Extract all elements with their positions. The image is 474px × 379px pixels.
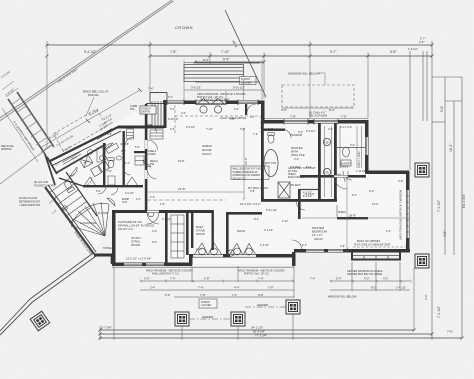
svg-text:4'-4": 4'-4" bbox=[234, 286, 240, 290]
svg-text:2'-8": 2'-8" bbox=[181, 112, 186, 115]
svg-text:2'-8": 2'-8" bbox=[230, 118, 235, 121]
svg-text:1'-6 1/2": 1'-6 1/2" bbox=[408, 47, 418, 51]
svg-text:8'-2": 8'-2" bbox=[329, 108, 335, 112]
playroom notes bbox=[118, 220, 154, 231]
svg-text:WINDOW: WINDOW bbox=[1, 148, 12, 151]
right rotated dim texts bbox=[424, 105, 466, 318]
bedroom interior dim lines bbox=[302, 177, 409, 252]
svg-text:WOOD: WOOD bbox=[131, 243, 140, 247]
hearth labels bbox=[196, 225, 205, 236]
porch column 3 bbox=[286, 300, 300, 314]
svg-text:77'-2 3/4": 77'-2 3/4" bbox=[255, 334, 267, 338]
window seat dashed bbox=[353, 246, 409, 248]
door arcs great room west wall bbox=[148, 140, 158, 179]
svg-text:14'-0": 14'-0" bbox=[196, 248, 202, 251]
svg-text:WINDOW SILL BELOW: WINDOW SILL BELOW bbox=[328, 295, 357, 299]
window gaps playroom bottom bbox=[124, 263, 142, 265]
svg-text:SHELF + ROD: SHELF + ROD bbox=[358, 151, 361, 168]
svg-text:3'-8 1/2": 3'-8 1/2" bbox=[191, 85, 201, 89]
top-left angled dim marks bbox=[2, 81, 18, 97]
playroom right wall bbox=[165, 212, 168, 264]
svg-text:3'-4": 3'-4" bbox=[168, 96, 173, 99]
svg-text:POCKET DOORS: POCKET DOORS bbox=[34, 183, 55, 187]
svg-text:4'-2": 4'-2" bbox=[364, 277, 370, 281]
svg-text:(2) 1-3/4"x11-7/8" LVL HDR: (2) 1-3/4"x11-7/8" LVL HDR bbox=[200, 98, 229, 101]
svg-text:C-4 1/2 x 8-8 LIN: C-4 1/2 x 8-8 LIN bbox=[56, 135, 74, 147]
dashed brick sill box bbox=[53, 109, 106, 151]
wing corridor upper wall angled bbox=[50, 127, 119, 162]
top-right wall bbox=[262, 120, 368, 124]
svg-text:HEADER: HEADER bbox=[202, 315, 213, 319]
svg-text:7'-1 1/2": 7'-1 1/2" bbox=[437, 305, 441, 318]
svg-text:28'-8": 28'-8" bbox=[349, 214, 356, 218]
svg-text:CROWN: CROWN bbox=[175, 25, 193, 30]
svg-text:FLAT CASE 16" WINDOW SEAT: FLAT CASE 16" WINDOW SEAT bbox=[354, 244, 391, 247]
svg-text:WD SEAT: WD SEAT bbox=[290, 184, 301, 187]
bottom total dim lines bbox=[100, 330, 462, 338]
porch louver steps bbox=[184, 65, 244, 83]
svg-text:CHUTE: CHUTE bbox=[340, 165, 349, 168]
property line double gray diagonal bbox=[0, 0, 174, 121]
svg-text:9'-4 1/2": 9'-4 1/2" bbox=[84, 50, 97, 54]
floor fill wing bbox=[45, 106, 146, 254]
playroom left exterior wall bbox=[112, 210, 116, 266]
svg-text:5'-8": 5'-8" bbox=[121, 149, 126, 153]
svg-text:7'-8": 7'-8" bbox=[268, 286, 274, 290]
wall step right bbox=[366, 171, 409, 175]
windows top-right wall bbox=[284, 121, 308, 123]
top main dimension line bbox=[46, 44, 434, 47]
interior vertical wall below entry bbox=[145, 104, 148, 211]
svg-text:AVAIL LENGTH 6'-2" O.C.: AVAIL LENGTH 6'-2" O.C. bbox=[152, 273, 180, 276]
G circle 1 bbox=[323, 138, 330, 145]
wing interior horizontal wall bbox=[83, 185, 143, 187]
svg-text:LINE OF EXIST WALL: LINE OF EXIST WALL bbox=[57, 68, 79, 84]
entry porch steps bbox=[152, 101, 161, 127]
svg-text:CLOAKROOM: CLOAKROOM bbox=[80, 222, 96, 225]
wing toilet 2 bbox=[108, 158, 114, 168]
bedroom door arc bbox=[334, 177, 347, 189]
bottom wall center portion bbox=[190, 254, 294, 258]
wing corridor upper wall horizontal part bbox=[118, 126, 164, 129]
dims under dashed box bbox=[281, 108, 347, 119]
angled dim line above corridor bbox=[40, 90, 140, 148]
svg-text:7'-8": 7'-8" bbox=[170, 50, 177, 54]
extra extension lines top porch bbox=[184, 60, 262, 100]
top dimension line 3 bbox=[194, 61, 266, 64]
dim line under dashed box bbox=[262, 108, 368, 119]
svg-text:5'-2": 5'-2" bbox=[52, 209, 58, 214]
svg-text:6X6: 6X6 bbox=[130, 108, 135, 111]
svg-text:9'-8": 9'-8" bbox=[440, 105, 444, 112]
svg-text:LINEN: LINEN bbox=[148, 152, 156, 156]
svg-text:TRANSOM: TRANSOM bbox=[290, 134, 302, 137]
right side extension lines bbox=[410, 41, 462, 340]
svg-text:7'-8": 7'-8" bbox=[290, 115, 296, 119]
leader to dashed box bbox=[318, 73, 325, 85]
wing corridor upper wall inner face bbox=[52, 131, 121, 166]
winder stair fan treads bbox=[71, 202, 109, 236]
svg-text:9'-5": 9'-5" bbox=[223, 58, 230, 62]
windows bottom-right wall bbox=[306, 250, 324, 252]
svg-text:3'-0": 3'-0" bbox=[144, 277, 150, 281]
svg-text:1'-4 1/2": 1'-4 1/2" bbox=[4, 87, 15, 96]
wing toilet 1 bbox=[63, 180, 75, 193]
svg-text:NOOK: NOOK bbox=[237, 229, 245, 233]
bottom extension lines bbox=[100, 262, 414, 340]
mid dim lines bbox=[140, 281, 410, 297]
svg-text:2'-8": 2'-8" bbox=[340, 245, 345, 248]
entry porch side walls upper bbox=[150, 93, 167, 105]
svg-text:VAULT: VAULT bbox=[202, 152, 211, 156]
svg-text:6'-2 1/2": 6'-2 1/2" bbox=[162, 218, 171, 221]
arc from west wall into great room bbox=[148, 124, 157, 133]
svg-text:HEADER: HEADER bbox=[257, 303, 268, 307]
svg-text:(2) 2x4 JAM: (2) 2x4 JAM bbox=[34, 180, 48, 184]
porch depth box redraw on top bbox=[140, 106, 156, 114]
bifold door 1 bbox=[84, 177, 96, 186]
master wc toilet bbox=[268, 133, 274, 144]
svg-text:5'-0 x 6'-8: 5'-0 x 6'-8 bbox=[340, 125, 352, 129]
svg-text:9'-10 1/2": 9'-10 1/2" bbox=[168, 118, 179, 121]
bathroom toilet right bbox=[99, 155, 106, 160]
svg-text:5'-8 1/2": 5'-8 1/2" bbox=[186, 126, 195, 129]
svg-text:FLUSH FLOOR: FLUSH FLOOR bbox=[19, 196, 37, 200]
svg-text:PLAYRM: PLAYRM bbox=[98, 212, 108, 215]
leader to box bbox=[86, 97, 94, 116]
door opening gaps center bbox=[193, 255, 223, 257]
dim texts master area bbox=[266, 125, 403, 212]
svg-text:7'-10": 7'-10" bbox=[206, 127, 213, 131]
svg-text:3'-4": 3'-4" bbox=[170, 127, 175, 131]
svg-text:OUT: OUT bbox=[122, 201, 128, 204]
kitchen hall extra marks bbox=[337, 171, 348, 217]
svg-text:3'-10 3/4": 3'-10 3/4" bbox=[1, 70, 11, 79]
closet shelving lines master closet 1 bbox=[325, 126, 332, 197]
closet shelving lines master closet 2 bbox=[340, 126, 362, 168]
master bath right wall bbox=[318, 123, 321, 201]
svg-text:WINDOW SILL BELOW: WINDOW SILL BELOW bbox=[288, 72, 320, 76]
wing interior vertical wall 2 bbox=[123, 131, 125, 187]
window line bbox=[167, 101, 184, 103]
svg-text:OPAL TILE: OPAL TILE bbox=[291, 153, 305, 157]
svg-text:RAILING: RAILING bbox=[88, 93, 99, 97]
svg-text:9'-7": 9'-7" bbox=[330, 50, 337, 54]
diamond porch column bbox=[30, 311, 49, 330]
svg-text:3'-6": 3'-6" bbox=[298, 131, 303, 134]
window gap 2 top wall bbox=[238, 101, 258, 103]
svg-text:4'-8": 4'-8" bbox=[443, 230, 447, 237]
svg-text:5'-2 1/2": 5'-2 1/2" bbox=[49, 131, 60, 140]
header dashed across great room bbox=[147, 199, 226, 201]
svg-text:2'-8": 2'-8" bbox=[204, 277, 210, 281]
master suite door arcs bbox=[282, 129, 352, 210]
svg-text:2'-4": 2'-4" bbox=[125, 162, 130, 165]
svg-text:POP PLY 2x6 - 16" O.C.: POP PLY 2x6 - 16" O.C. bbox=[244, 273, 270, 276]
mid dim texts bbox=[144, 277, 406, 297]
svg-text:BETWEEN EXIST: BETWEEN EXIST bbox=[19, 199, 40, 203]
svg-text:6'-4 1/2": 6'-4 1/2" bbox=[303, 195, 312, 198]
door gap arch doors bbox=[196, 101, 226, 103]
hall door arc bbox=[292, 240, 302, 250]
wing small fixtures bbox=[108, 156, 144, 185]
svg-text:7'-8": 7'-8" bbox=[341, 115, 347, 119]
wing upper window on corridor bbox=[62, 152, 81, 165]
wing SW edge wall bbox=[45, 154, 55, 185]
porch dim line 8'-0 bbox=[184, 62, 262, 64]
porch edge angled bottom-left bbox=[0, 253, 96, 336]
svg-text:4'-0": 4'-0" bbox=[150, 196, 155, 199]
svg-text:2'-6": 2'-6" bbox=[294, 158, 299, 161]
porch slab edge under bottom wall bbox=[112, 266, 294, 268]
svg-text:3'-0": 3'-0" bbox=[350, 143, 355, 147]
svg-text:4'-1 1/2": 4'-1 1/2" bbox=[260, 244, 269, 247]
walkway wall B bbox=[17, 92, 54, 147]
svg-text:WALK-WAY BRIDGE: WALK-WAY BRIDGE bbox=[18, 128, 36, 151]
svg-text:9'-4 3/4": 9'-4 3/4" bbox=[89, 108, 100, 117]
bedroom hall closet wall bbox=[300, 189, 318, 191]
svg-text:4'-2": 4'-2" bbox=[383, 277, 389, 281]
svg-text:G: G bbox=[326, 170, 329, 175]
step between bottom walls bbox=[189, 254, 193, 265]
angled texts along corridor top bbox=[56, 114, 113, 147]
french door pair B bbox=[229, 244, 256, 256]
bottom dim texts bbox=[101, 326, 453, 338]
stub door arc bbox=[247, 104, 256, 112]
scattered room dims bbox=[107, 127, 355, 244]
top wall corner step bbox=[261, 101, 265, 123]
wing sink 2 bbox=[116, 156, 121, 160]
bedroom top wall interior bbox=[300, 175, 366, 178]
corridor window angled bbox=[96, 129, 113, 140]
svg-text:8'-0": 8'-0" bbox=[203, 58, 209, 62]
svg-text:2'-4 1/2": 2'-4 1/2" bbox=[396, 286, 406, 290]
closet wall right of bookcase bbox=[186, 212, 189, 255]
window in right wall upper bbox=[366, 137, 368, 155]
header dash-dot 1 bbox=[189, 318, 231, 320]
svg-text:2'-8": 2'-8" bbox=[136, 198, 141, 201]
svg-text:4'-6": 4'-6" bbox=[250, 116, 255, 119]
bottom dim ticks bbox=[99, 329, 464, 340]
master suite left wall bbox=[261, 122, 264, 201]
shower with X bbox=[278, 182, 290, 198]
svg-text:13'-0": 13'-0" bbox=[372, 203, 378, 206]
svg-text:8'-4": 8'-4" bbox=[254, 217, 259, 221]
wing end closure bbox=[47, 157, 57, 174]
svg-text:5'-6": 5'-6" bbox=[135, 146, 140, 149]
svg-text:2'-4": 2'-4" bbox=[152, 229, 157, 233]
svg-text:7'-4": 7'-4" bbox=[258, 277, 264, 281]
svg-text:4'-1 1/2": 4'-1 1/2" bbox=[264, 229, 273, 232]
wing door leaf lines bbox=[70, 143, 151, 176]
svg-text:STOVE: STOVE bbox=[196, 229, 205, 233]
hearth right wall bbox=[212, 210, 214, 250]
wing interior vertical wall bbox=[103, 143, 105, 187]
shower square wing bbox=[79, 154, 93, 168]
svg-text:7'-4": 7'-4" bbox=[310, 277, 315, 281]
svg-text:+ NEW ADDITION: + NEW ADDITION bbox=[19, 203, 40, 207]
arch-top double doors top porch bbox=[197, 99, 226, 114]
hearth room walls bbox=[191, 212, 193, 248]
master wc wall bbox=[262, 129, 285, 131]
small tick dims along bottom wall bbox=[140, 280, 412, 283]
svg-text:40'-1: 40'-1 bbox=[231, 40, 238, 49]
top dim texts row1 bbox=[84, 37, 425, 55]
svg-text:5'-4": 5'-4" bbox=[336, 277, 342, 281]
wing sink 1 bbox=[86, 149, 93, 156]
svg-text:DBL SCR WDW: DBL SCR WDW bbox=[309, 115, 328, 118]
svg-text:15'-8": 15'-8" bbox=[178, 187, 186, 191]
right wall upper bbox=[365, 120, 369, 174]
bay glazing lines bbox=[352, 256, 400, 260]
light shelf dashed outline bbox=[175, 105, 261, 133]
svg-text:16'-2": 16'-2" bbox=[449, 143, 453, 152]
hall door arc cloak bbox=[107, 198, 115, 206]
svg-text:DEPTH: DEPTH bbox=[142, 111, 151, 114]
closet divider wall top-right bbox=[337, 147, 365, 149]
svg-text:2'-4": 2'-4" bbox=[419, 40, 424, 44]
porch louver label box bbox=[240, 77, 257, 85]
svg-text:DRYWALL ON 3/4" PLYWOOD: DRYWALL ON 3/4" PLYWOOD bbox=[118, 224, 154, 228]
nook top wall bbox=[228, 212, 262, 215]
svg-text:MST TUB: MST TUB bbox=[265, 162, 276, 165]
svg-text:PLATFORM 3/4" A/P: PLATFORM 3/4" A/P bbox=[118, 220, 142, 224]
svg-text:SHELF: SHELF bbox=[338, 211, 347, 214]
porch column 1 bbox=[175, 312, 189, 326]
wing vanity counter bbox=[97, 148, 103, 162]
dim tick line below porch bbox=[184, 89, 262, 91]
stair hall left wall bbox=[45, 187, 94, 254]
top wall left segment bbox=[163, 101, 263, 105]
svg-text:9'-8": 9'-8" bbox=[258, 293, 264, 297]
svg-text:7'-4": 7'-4" bbox=[198, 286, 204, 290]
svg-text:7'-4": 7'-4" bbox=[232, 293, 237, 297]
svg-text:7'-4": 7'-4" bbox=[170, 277, 176, 281]
leader 40'-1 bbox=[225, 10, 266, 97]
svg-text:(2) 2'-8": (2) 2'-8" bbox=[120, 142, 129, 146]
porch front edge at entry bbox=[146, 103, 163, 105]
extra bottom dim texts bbox=[150, 277, 315, 297]
extra tiny texts center bbox=[162, 118, 357, 251]
texts under top-right wall bbox=[268, 128, 333, 134]
interior stub below top wall bbox=[245, 104, 247, 115]
nook G circles bbox=[228, 250, 234, 256]
flush floor note bbox=[19, 196, 40, 207]
svg-text:7'-8": 7'-8" bbox=[200, 293, 206, 297]
svg-text:STONE: STONE bbox=[103, 247, 112, 250]
master bedroom labels bbox=[312, 226, 328, 241]
playroom label bbox=[131, 236, 142, 247]
stair circle column bbox=[63, 206, 67, 210]
svg-text:19'-8": 19'-8" bbox=[178, 159, 185, 163]
winder outer edge bbox=[71, 203, 109, 226]
svg-text:10'-2 1/2" x 11'-0": 10'-2 1/2" x 11'-0" bbox=[240, 202, 261, 206]
scan grain bbox=[0, 0, 1, 1]
porch depth label box bbox=[140, 106, 156, 114]
svg-text:3'-0": 3'-0" bbox=[424, 294, 428, 300]
svg-text:ON 2x6" O.C.: ON 2x6" O.C. bbox=[118, 227, 134, 231]
extra wing texts bbox=[96, 146, 141, 201]
walkway hatch ticks bbox=[11, 98, 51, 152]
svg-text:TILE: TILE bbox=[306, 166, 312, 169]
wing rotated texts bbox=[55, 146, 91, 179]
window in right wall lower bbox=[407, 190, 409, 238]
master tub oval bbox=[264, 150, 278, 177]
svg-text:ARCH TRANSOM - WIDTH OF 3 WIND: ARCH TRANSOM - WIDTH OF 3 WINDOW bbox=[399, 189, 403, 240]
linen shelves bbox=[127, 129, 134, 139]
svg-text:2'-0 1/2": 2'-0 1/2" bbox=[306, 129, 316, 133]
svg-text:5'-11 1/2": 5'-11 1/2" bbox=[266, 208, 277, 212]
master bedroom extra dim texts bbox=[302, 170, 391, 248]
box bay window bbox=[352, 252, 400, 260]
svg-text:2'-8": 2'-8" bbox=[160, 203, 165, 206]
svg-text:ON 2x6" O.C.: ON 2x6" O.C. bbox=[233, 178, 248, 181]
washer dryer bbox=[91, 161, 110, 176]
dim line mid-bedroom vertical ticks bbox=[346, 177, 349, 251]
entry porch notch top-left bbox=[146, 104, 152, 126]
wall step joining porch to house bbox=[94, 255, 112, 264]
stair hall left wall inner line bbox=[48, 185, 96, 252]
extra porch step lines bbox=[195, 63, 260, 82]
G circle 2 bbox=[323, 168, 330, 175]
window gap top wall bbox=[167, 101, 184, 103]
svg-text:7'-1 1/2": 7'-1 1/2" bbox=[437, 199, 441, 212]
stair upper right wall bbox=[66, 172, 97, 216]
svg-text:64'-3 3/4": 64'-3 3/4" bbox=[462, 193, 466, 208]
bifold door 2 bbox=[126, 177, 138, 186]
svg-text:7'-2": 7'-2" bbox=[253, 133, 258, 136]
wing vanity counter 2 bbox=[106, 143, 119, 153]
walkway wall A bbox=[8, 99, 45, 154]
great room horizontal dim line bbox=[148, 191, 244, 193]
glass block note bbox=[288, 167, 316, 179]
svg-text:3'-6": 3'-6" bbox=[281, 108, 287, 112]
straight stair treads bbox=[49, 178, 90, 223]
ticks on angled dim line bbox=[39, 88, 142, 150]
svg-text:2'-10": 2'-10" bbox=[282, 220, 288, 223]
extra arc wing bbox=[83, 177, 92, 186]
svg-text:5'-1": 5'-1" bbox=[352, 194, 357, 197]
master bath labels bbox=[291, 146, 305, 157]
svg-text:6'-0": 6'-0" bbox=[152, 240, 157, 244]
wing corridor lower wall bbox=[56, 144, 106, 173]
nook left wall bbox=[226, 212, 229, 256]
hall door leaf bbox=[107, 198, 115, 206]
hall wall below master bbox=[337, 217, 368, 219]
svg-text:5'-2": 5'-2" bbox=[386, 230, 391, 233]
svg-text:2'-7 3/4": 2'-7 3/4" bbox=[101, 326, 112, 330]
svg-text:6'-1": 6'-1" bbox=[302, 244, 307, 247]
svg-text:RM: RM bbox=[150, 162, 154, 166]
bottom wall playroom portion bbox=[112, 263, 192, 267]
floor fill main body bbox=[112, 100, 408, 264]
master suite bottom wall bbox=[261, 199, 337, 202]
top dimension line 2 bbox=[149, 55, 434, 58]
svg-text:9'-10 1/2": 9'-10 1/2" bbox=[233, 85, 245, 89]
top dim texts row2 bbox=[170, 50, 397, 54]
wing door arcs bbox=[70, 143, 151, 195]
great room vertical dim line bbox=[243, 128, 246, 201]
window sill dashed box top-right bbox=[282, 85, 354, 107]
svg-text:9'-0": 9'-0" bbox=[369, 189, 374, 193]
hall wall left of master bedroom bbox=[298, 189, 301, 219]
tiny texts below top wall bbox=[168, 96, 255, 119]
right wall lower bbox=[406, 171, 410, 252]
svg-text:9'-8": 9'-8" bbox=[107, 132, 112, 136]
svg-text:7'-10": 7'-10" bbox=[221, 50, 230, 54]
extra wing walls bbox=[59, 178, 83, 186]
svg-text:PLT SHLF 16" AFF: PLT SHLF 16" AFF bbox=[248, 187, 269, 190]
